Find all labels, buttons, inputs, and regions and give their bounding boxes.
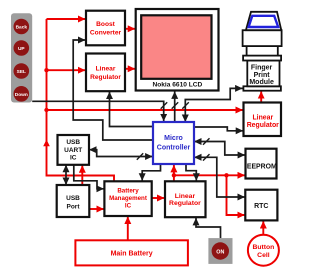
fingerprint module base — [243, 86, 281, 90]
fingerprint module body — [247, 61, 279, 87]
junction dot regulator rail left — [172, 173, 176, 177]
button cell — [248, 235, 279, 266]
wire: red Button Cell to RTC — [262, 221, 264, 235]
svg-text:Button: Button — [252, 244, 274, 251]
wire: red right Linear Regulator to Finger Print Module — [260, 91, 262, 102]
svg-text:UP: UP — [18, 46, 25, 52]
svg-text:Management: Management — [109, 195, 147, 202]
linear regulator right — [244, 103, 282, 137]
fingerprint module top prism — [246, 12, 281, 30]
fingerprint module collar — [243, 56, 281, 61]
svg-text:Port: Port — [67, 204, 81, 211]
ON switch button — [212, 242, 229, 259]
wire: red Boost Converter to LCD — [125, 28, 135, 30]
svg-text:Cell: Cell — [257, 252, 270, 259]
wire: black Micro Controller to bottom Linear Regulator — [186, 164, 196, 181]
crossing tick on EEPROM wire — [203, 138, 210, 145]
wire: black USB UART IC to Micro Controller — [89, 150, 153, 157]
wire: red power bus to right Linear Regulator — [47, 109, 244, 111]
crossing tick on panel wire — [161, 102, 168, 109]
wire: red vertical bus from buttons down to Battery Management IC — [47, 19, 115, 181]
svg-text:Regulator: Regulator — [90, 74, 121, 81]
wire: black Micro Controller to Boost Converter — [73, 40, 153, 140]
crossing tick on UART wire — [137, 153, 143, 160]
svg-text:IC: IC — [70, 155, 77, 162]
wire: red rail branch to RTC — [227, 175, 245, 215]
svg-text:UART: UART — [64, 147, 82, 154]
USB port — [57, 185, 90, 217]
svg-text:Controller: Controller — [157, 145, 191, 152]
wire: red feed to Boost Converter — [47, 18, 86, 20]
wire: black Micro Controller to right Linear Regulator — [194, 127, 243, 131]
svg-text:Print: Print — [254, 72, 271, 79]
svg-text:Converter: Converter — [90, 29, 122, 36]
svg-text:Main Battery: Main Battery — [111, 251, 153, 258]
crossing tick on RTC wire — [203, 154, 210, 161]
wire: black USB UART IC to USB Port — [65, 165, 67, 185]
svg-text:EEPROM: EEPROM — [247, 163, 277, 170]
button panel — [11, 13, 32, 102]
wire: red rail to EEPROM — [174, 174, 245, 176]
wire: red USB Port to USB UART IC — [81, 165, 83, 185]
EEPROM — [246, 149, 277, 179]
fingerprint module neck — [247, 46, 278, 56]
boost converter — [86, 11, 125, 46]
junction dot power bus — [44, 108, 48, 112]
svg-text:USB: USB — [66, 139, 80, 146]
wire: black Micro Controller to Finger Print Module — [185, 88, 242, 122]
svg-text:Regulator: Regulator — [169, 200, 201, 207]
wire: red Linear Regulator to LCD — [125, 68, 135, 70]
svg-text:SEL: SEL — [17, 69, 26, 75]
svg-text:Nokia 6610 LCD: Nokia 6610 LCD — [152, 82, 202, 89]
wire: red USB Port to Battery Management IC — [89, 208, 104, 210]
junction dot regulator rail right — [224, 173, 228, 177]
svg-text:Micro: Micro — [164, 135, 183, 142]
linear regulator top-left — [86, 54, 125, 92]
svg-text:Linear: Linear — [96, 66, 116, 73]
svg-text:Linear: Linear — [252, 114, 273, 121]
wire: black Micro Controller to EEPROM — [194, 142, 245, 156]
wire: black Micro Controller to RTC — [194, 157, 245, 197]
junction dot SEL tap — [44, 68, 48, 72]
button UP — [13, 40, 29, 56]
svg-text:Boost: Boost — [96, 21, 115, 28]
wire: black USB UART IC to Battery Management IC — [74, 165, 104, 189]
red direction arrow on vertical bus — [43, 140, 50, 147]
LCD screen — [141, 15, 211, 79]
Nokia 6610 LCD outer box — [136, 9, 219, 91]
svg-text:Regulator: Regulator — [247, 122, 279, 129]
svg-text:Finger: Finger — [251, 65, 273, 72]
wire: black Micro Controller to Battery Management IC — [142, 164, 160, 181]
micro controller U1 — [153, 122, 194, 164]
wire: red Battery Management IC to bottom Linear Regulator — [152, 197, 165, 199]
battery management IC — [104, 181, 151, 216]
svg-text:Linear: Linear — [175, 193, 196, 200]
svg-text:USB: USB — [66, 195, 80, 202]
wire: black buttons panel to Micro Controller — [32, 101, 164, 121]
wire: black Micro Controller to LCD — [174, 91, 176, 122]
fingerprint scanner window — [249, 16, 279, 27]
linear regulator bottom — [165, 181, 206, 217]
fingerprint module upper block — [243, 30, 282, 46]
svg-text:ON: ON — [216, 249, 224, 255]
USB UART IC — [58, 135, 90, 165]
svg-text:Back: Back — [16, 25, 28, 31]
svg-text:Down: Down — [15, 92, 28, 98]
ON switch pad — [208, 238, 232, 264]
button Back — [13, 19, 29, 35]
svg-text:Battery: Battery — [117, 188, 139, 195]
RTC — [245, 190, 277, 221]
svg-text:RTC: RTC — [254, 203, 268, 210]
wire: black Micro Controller to Linear Regulator top-left — [110, 92, 154, 127]
wire: red Main Battery to Battery Management IC — [127, 217, 129, 241]
crossing tick on LCD wire — [172, 102, 179, 109]
svg-text:IC: IC — [125, 203, 132, 210]
main battery — [75, 240, 187, 265]
button SEL — [13, 63, 29, 79]
crossing tick on fingerprint wire — [182, 102, 189, 109]
wire: black ON switch to bottom Linear Regulator — [196, 218, 221, 238]
svg-text:Module: Module — [249, 79, 274, 86]
wire: red bottom Linear Regulator to Micro Controller — [173, 165, 175, 181]
wire: red feed to Linear Regulator top-left — [47, 69, 86, 71]
button Down — [13, 86, 29, 102]
